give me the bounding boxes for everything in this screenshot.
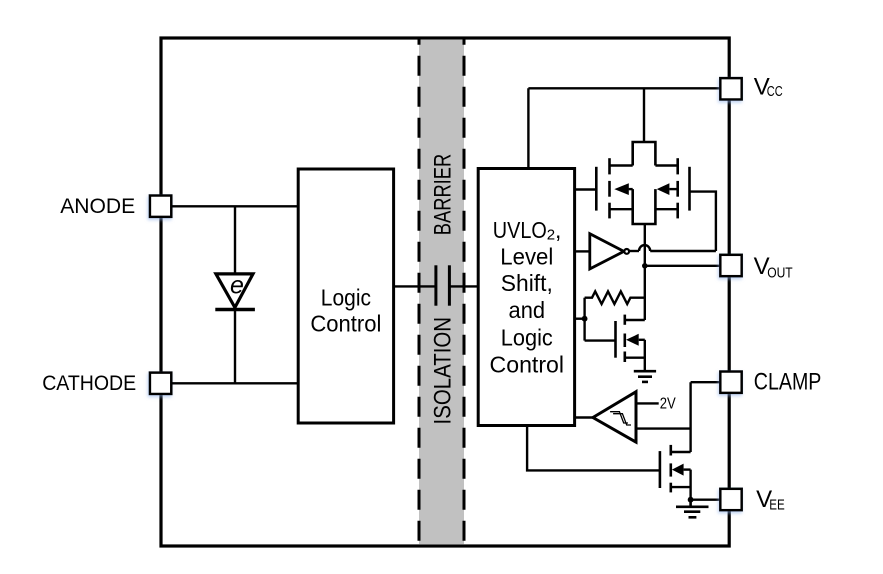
barrier dashed line right xyxy=(463,38,466,546)
svg-text:Logic: Logic xyxy=(501,324,553,350)
wire anode to logic control xyxy=(171,205,298,207)
svg-text:Shift,: Shift, xyxy=(501,270,553,296)
UVLO level shift logic block xyxy=(478,169,574,426)
pin VEE xyxy=(720,489,741,510)
svg-text:e: e xyxy=(230,272,244,300)
isolation barrier gray band xyxy=(419,40,464,545)
wire LED to cathode xyxy=(234,310,236,384)
LED input diode xyxy=(216,274,253,308)
wire 2V reference xyxy=(636,402,659,404)
transistor Q1 left output FET xyxy=(596,158,609,218)
svg-text:,: , xyxy=(555,217,561,243)
node VEE junction xyxy=(688,497,694,503)
wire UVLO to resistor node xyxy=(575,318,585,320)
wire UVLO to left gate xyxy=(575,188,597,190)
svg-text:ANODE: ANODE xyxy=(60,193,135,218)
pin ANODE xyxy=(150,196,171,217)
wire logic control to capacitor xyxy=(394,285,436,287)
svg-text:and: and xyxy=(509,297,546,323)
wire UVLO bottom to clamp gate xyxy=(527,426,660,471)
ground G2 xyxy=(676,500,709,518)
wire VCC rail to output stage xyxy=(643,88,645,142)
wire resistor node corner xyxy=(583,298,585,341)
node resistor junction xyxy=(582,316,588,322)
wire anode to LED xyxy=(234,206,236,274)
svg-text:Control: Control xyxy=(490,352,565,378)
wire capacitor to UVLO block xyxy=(449,285,478,287)
wire to VEE pin xyxy=(691,499,721,501)
wire UVLO to comparator output xyxy=(575,416,593,418)
wire comparator input xyxy=(636,427,691,429)
logic control block xyxy=(298,169,393,423)
pin VOUT xyxy=(720,255,741,276)
svg-text:Control: Control xyxy=(310,311,381,337)
barrier dashed line left xyxy=(418,38,421,546)
isolation capacitor C1 xyxy=(434,265,437,305)
svg-text:2V: 2V xyxy=(660,395,677,412)
svg-text:EE: EE xyxy=(769,497,785,514)
resistor R1 xyxy=(585,291,645,304)
output stage center column xyxy=(633,142,656,224)
svg-text:CLAMP: CLAMP xyxy=(754,369,822,396)
pin CLAMP xyxy=(720,372,741,393)
svg-text:Logic: Logic xyxy=(321,285,371,311)
svg-text:ISOLATION: ISOLATION xyxy=(429,317,456,425)
wire VOUT node to pin xyxy=(645,265,721,267)
wire inverter output with hop xyxy=(629,250,639,252)
ground G1 xyxy=(634,371,656,382)
wire cathode to logic control xyxy=(171,382,298,384)
svg-text:OUT: OUT xyxy=(767,264,793,281)
transistor Q4 clamp FET xyxy=(660,445,671,493)
comparator U3 xyxy=(593,392,636,442)
pin VCC xyxy=(720,78,741,99)
svg-text:2: 2 xyxy=(547,226,555,243)
transistor Q3 pulldown FET xyxy=(616,315,625,362)
svg-text:Level: Level xyxy=(500,244,553,270)
svg-text:CATHODE: CATHODE xyxy=(42,370,136,395)
svg-text:BARRIER: BARRIER xyxy=(429,154,456,236)
wire clamp drain to CLAMP pin xyxy=(689,382,691,452)
svg-text:CC: CC xyxy=(767,83,783,100)
inverter U2 xyxy=(590,234,624,269)
wire UVLO top to VCC rail xyxy=(527,88,529,168)
wire right gate to inverter output xyxy=(690,192,716,251)
wire to pulldown gate xyxy=(585,339,616,341)
wire VCC rail xyxy=(528,87,720,89)
wire UVLO to inverter xyxy=(575,250,590,252)
svg-text:UVLO: UVLO xyxy=(493,217,547,243)
outer package border xyxy=(161,38,729,546)
pin CATHODE xyxy=(150,373,171,394)
node VOUT junction xyxy=(642,263,648,269)
hysteresis symbol xyxy=(610,412,631,425)
transistor Q2 right output FET xyxy=(678,158,690,218)
wire output stage to VOUT node xyxy=(644,224,646,320)
